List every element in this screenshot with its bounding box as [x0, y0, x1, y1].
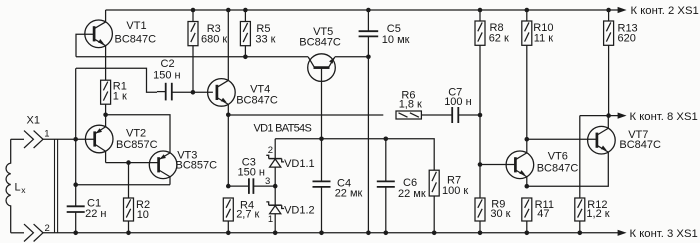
svg-text:10: 10: [137, 209, 149, 221]
connector X1 pin 2 chevrons: [24, 224, 33, 241]
svg-text:1 к: 1 к: [113, 91, 127, 103]
resistor R4: [223, 198, 233, 221]
junction dot R2 tap: [126, 160, 131, 165]
wire - bottom common rail to K kont. 3 XS1: [43, 232, 618, 234]
svg-text:BC847C: BC847C: [619, 139, 661, 151]
wire - X1 pin1 to VT2 base: [43, 138, 95, 140]
resistor R12: [575, 198, 585, 221]
resistor R9: [475, 198, 485, 221]
wire - VT3 collector feedback to tank node: [76, 184, 170, 186]
wire - C2 right plate to VT4 base: [171, 91, 173, 93]
wire - top supply rail (+) from VT1 collector to K kont.2 XS1: [106, 9, 609, 11]
junction dot VT5 emitter / C5 column: [366, 55, 371, 60]
wire - R10 bottom lead to VT6 collector: [526, 45, 528, 153]
wire - long wire from VT1 base to VT5 collector: [76, 56, 308, 58]
resistor R2: [124, 198, 134, 221]
wire - R4 bottom lead: [227, 221, 229, 233]
junction dot VT6/VT7 emitters R11: [525, 184, 530, 189]
svg-text:150 н: 150 н: [238, 167, 265, 179]
svg-text:BC847C: BC847C: [537, 162, 579, 174]
resistor R10: [522, 21, 532, 45]
svg-text:30 к: 30 к: [490, 208, 510, 220]
wire - C1 bottom lead: [75, 212, 77, 233]
wire - VT5 base down to detector output node: [321, 68, 323, 139]
junction dot VT5 base / C4: [319, 137, 324, 142]
wire - VT4 emitter node right to R6: [228, 114, 383, 116]
transistor VT7 BC847C: [588, 126, 616, 154]
connector X1 pin 1 chevrons: [24, 131, 33, 148]
svg-text:1: 1: [44, 129, 49, 140]
wire - VD1.1 cathode lead (pin 2): [274, 139, 276, 159]
wire - R5 bottom lead: [244, 46, 246, 57]
junction dot R3/C2/VT4 base: [191, 90, 196, 95]
junction dot emitter node: [103, 113, 108, 118]
svg-text:62 к: 62 к: [489, 32, 509, 44]
wire - R6 to C7: [421, 114, 452, 116]
capacitor C5: [359, 30, 379, 32]
svg-text:22 н: 22 н: [85, 208, 106, 220]
svg-text:620: 620: [618, 33, 636, 45]
svg-text:BC847C: BC847C: [299, 36, 341, 48]
wire - C4 top lead: [321, 139, 323, 182]
node - output K kont. 2 XS1: [609, 9, 618, 11]
transistor VT1 BC847C: [85, 20, 113, 48]
capacitor C7: [451, 107, 453, 123]
transistor VT5 BC847C: [308, 54, 336, 82]
resistor R8: [475, 21, 485, 45]
junction dot VT4 emitter node: [226, 113, 231, 118]
svg-text:L: L: [15, 182, 21, 194]
svg-text:2,7 к: 2,7 к: [236, 209, 259, 221]
svg-text:3: 3: [265, 176, 270, 187]
resistor R5: [240, 22, 250, 46]
transistor VT4 BC847C: [208, 79, 236, 107]
wire - R10 top lead: [526, 10, 528, 21]
wire - C4 bottom lead: [321, 187, 323, 233]
svg-text:1: 1: [268, 214, 273, 225]
wire - R8 bottom lead down to VT6 base tap: [479, 45, 481, 198]
resistor R13: [604, 21, 614, 45]
svg-text:33 к: 33 к: [255, 33, 275, 45]
svg-text:К конт. 8 XS1: К конт. 8 XS1: [630, 111, 698, 123]
svg-text:BC857C: BC857C: [176, 160, 218, 172]
transistor VT3 BC857C: [149, 151, 177, 179]
wire - VT1 base loop to long wire y=56.8: [76, 34, 94, 57]
wire - to VT6 base: [480, 164, 515, 166]
svg-text:К конт. 2 XS1: К конт. 2 XS1: [631, 5, 699, 17]
wire - VT2 collector to VT3 base: [106, 162, 159, 164]
wire - shared emitter wire to VT7 emitter: [527, 152, 609, 186]
svg-text:BC847C: BC847C: [115, 33, 157, 45]
svg-text:BC857C: BC857C: [116, 139, 158, 151]
svg-text:1,2 к: 1,2 к: [586, 208, 609, 220]
resistor R6: [396, 111, 421, 119]
wire - VD1.2 anode lead (pin 1) to ground rail: [274, 214, 276, 233]
wire - VD1.1 cathode node: C4, C6, R7, VT5 base: [275, 139, 434, 170]
wire - R1 bottom to emitter node of VT2/VT3: [105, 104, 107, 115]
wire - R5 top lead: [244, 10, 246, 22]
wire - C2 left lead: [157, 91, 166, 93]
svg-text:VD1.1: VD1.1: [284, 158, 315, 170]
svg-text:150 н: 150 н: [153, 69, 180, 81]
wire - R3 bottom lead down to VT4 base node: [192, 46, 194, 93]
cable screen double line: [54, 139, 56, 233]
junction dot C3/R4/VT4-emitter: [226, 184, 231, 189]
capacitor C4: [313, 180, 331, 182]
transistor VT2 BC857C: [85, 125, 113, 153]
svg-text:2: 2: [268, 145, 273, 156]
wire - X1 pin 2 wire: [11, 232, 24, 234]
svg-text:VT6: VT6: [548, 150, 568, 162]
resistor R11: [522, 198, 532, 221]
wire - VT6 collector node to VT7 base: [527, 138, 597, 140]
wire - tank node up-over to C2 left plate: [76, 68, 157, 92]
junction dot VT6 collector / VT7 base: [525, 137, 530, 142]
wire - R13 bottom lead: [608, 45, 610, 115]
junction dot VT6 base tap: [478, 162, 483, 167]
capacitor C6: [377, 180, 395, 182]
svg-text:BC847C: BC847C: [236, 94, 278, 106]
resistor R7: [429, 170, 439, 196]
inductor Lx with left wire: [6, 139, 11, 233]
svg-text:100 н: 100 н: [444, 96, 471, 108]
svg-text:VD1 BAT54S: VD1 BAT54S: [254, 123, 312, 135]
wire - C7 to R8 column: [458, 114, 480, 116]
diode VD1.2 (schottky): [269, 204, 282, 206]
wire - output node K kont. 8 XS1: [580, 115, 618, 117]
svg-text:22 мк: 22 мк: [398, 188, 426, 200]
svg-text:47: 47: [537, 208, 549, 220]
wire - VD1.1 anode to pin 3 node: [274, 167, 276, 205]
svg-text:1,8 к: 1,8 к: [399, 99, 422, 111]
wire - R2 top lead: [128, 163, 130, 198]
junction dot R5 bottom: [243, 55, 248, 60]
wire - R2 bottom lead: [128, 221, 130, 233]
wire - C6 bottom lead: [385, 187, 387, 233]
svg-text:VD1.2: VD1.2: [284, 204, 315, 216]
svg-text:VT2: VT2: [126, 127, 146, 139]
wire - R12 bottom lead: [579, 221, 581, 233]
junction dot VT3 collector feedback: [73, 182, 78, 187]
wire - R12 top lead from output node: [579, 116, 581, 198]
wire - emitter node to VT3 emitter: [106, 115, 170, 153]
resistor R3: [188, 22, 198, 46]
wire - R3 top lead: [192, 10, 194, 22]
junction dot VT7 collector / R13 / output: [606, 113, 611, 118]
wire - C5 top lead from rail: [367, 10, 369, 31]
junction dots on top rail: [191, 8, 196, 13]
wire - R13 top lead: [608, 10, 610, 21]
junction dot C7/R8: [478, 113, 483, 118]
junction dot pin 3 node: [273, 184, 278, 189]
junction dot C6 top: [384, 137, 389, 142]
svg-text:VT1: VT1: [126, 20, 146, 32]
wire - VT5 emitter to C5 ground column: [335, 56, 369, 58]
wire - X1 pin 1 wire to tank: [11, 138, 24, 140]
wire - R8 top lead: [479, 10, 481, 21]
svg-text:X1: X1: [27, 115, 40, 127]
diode VD1.1 (schottky): [269, 158, 282, 160]
svg-text:22 мк: 22 мк: [335, 188, 363, 200]
svg-text:100 к: 100 к: [442, 185, 468, 197]
wire - C5 bottom lead down to ground rail: [367, 36, 369, 232]
resistor R1: [101, 80, 111, 104]
svg-text:680 к: 680 к: [201, 33, 227, 45]
capacitor C2: [165, 83, 167, 101]
wire - C3 right lead to pin 3: [253, 185, 275, 187]
transistor VT6 BC847C: [506, 151, 534, 179]
svg-text:х: х: [21, 185, 26, 195]
wire - R11 bottom lead: [526, 221, 528, 233]
junction dot tank node: [73, 137, 78, 142]
wire - VT4 emitter node down to C3/R4 node: [227, 115, 229, 186]
svg-text:10 мк: 10 мк: [382, 34, 410, 46]
svg-text:11 к: 11 к: [534, 32, 553, 44]
capacitor C1: [67, 205, 85, 207]
junction dots on bottom rail: [73, 231, 78, 236]
svg-text:К конт. 3 XS1: К конт. 3 XS1: [630, 228, 698, 240]
wire - R7 bottom lead: [433, 196, 435, 233]
wire - R9 bottom lead: [479, 221, 481, 233]
capacitor C3: [248, 178, 250, 194]
wire - C6 top lead: [385, 139, 387, 182]
wire - tank node vertical: VT2 base / C1 / VT3 collector feedback: [75, 68, 77, 206]
wire - C3 left lead: [228, 185, 249, 187]
